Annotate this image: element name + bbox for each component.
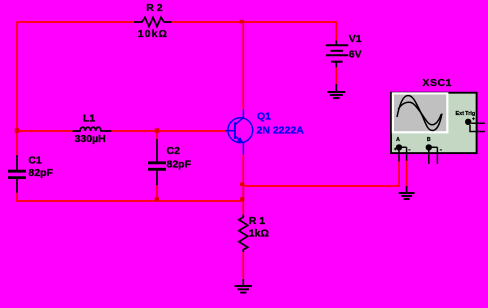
wire: top rail left segment — [17, 21, 134, 23]
terminal B pin stubs — [429, 147, 438, 164]
wire: left vertical below C1 — [16, 193, 18, 202]
svg-text:C2: C2 — [167, 145, 181, 157]
resistor R1 — [239, 215, 248, 253]
wire: C2 top stub — [156, 131, 158, 140]
svg-text:10kΩ: 10kΩ — [138, 28, 168, 40]
terminal B minus mark — [440, 149, 442, 151]
terminal B — [426, 144, 432, 150]
svg-text:C1: C1 — [28, 155, 42, 167]
ground (scope A-) — [399, 186, 415, 199]
svg-text:XSC1: XSC1 — [422, 77, 452, 89]
wire: bottom rail — [16, 200, 243, 202]
wire: R1 bottom to ground — [242, 252, 244, 279]
svg-text:330µH: 330µH — [75, 133, 106, 145]
junction: C2 bottom — [155, 197, 159, 201]
svg-text:82pF: 82pF — [28, 167, 53, 179]
svg-text:1kΩ: 1kΩ — [249, 228, 269, 240]
svg-text:R 2: R 2 — [146, 2, 163, 14]
junction: collector on top rail — [240, 20, 244, 23]
svg-text:R 1: R 1 — [249, 215, 265, 227]
wire: collector vertical — [242, 22, 244, 110]
terminal A pin stubs — [399, 147, 407, 161]
terminal A minus mark — [408, 149, 410, 151]
ground (below V1) — [327, 84, 345, 98]
junction: emitter / scope wire — [240, 183, 244, 187]
wire: output to scope A+ — [243, 162, 399, 187]
oscilloscope screen — [393, 93, 447, 132]
junction: emitter / bottom rail — [240, 197, 244, 201]
transistor Q1 (NPN) — [225, 110, 252, 155]
wire: top rail right segment to battery corner — [172, 22, 337, 41]
wire: battery to ground (red) — [335, 67, 337, 84]
svg-text:6V: 6V — [349, 49, 362, 61]
screen sine wave (inner) — [398, 102, 441, 124]
capacitor C1 — [8, 155, 26, 193]
ground (below R1) — [235, 279, 253, 293]
screen sine wave (outer) — [397, 96, 442, 131]
svg-text:82pF: 82pF — [167, 159, 192, 171]
svg-text:2N 2222A: 2N 2222A — [257, 125, 305, 137]
svg-text:V1: V1 — [349, 33, 362, 45]
wire: tank row left (node to L1) — [17, 130, 73, 132]
wire: scope A- lead (red part) — [406, 161, 408, 186]
ext trig plus mark — [472, 117, 475, 120]
terminal Ext Trig — [465, 119, 471, 125]
terminal A — [396, 144, 402, 150]
svg-text:A: A — [396, 137, 400, 143]
capacitor C2 — [148, 139, 166, 185]
svg-text:Ext Trig: Ext Trig — [456, 111, 476, 117]
battery V1 — [326, 41, 348, 68]
terminal A plus mark — [394, 148, 397, 151]
oscilloscope XSC1 body — [391, 93, 477, 153]
wire: left vertical rail — [16, 21, 18, 155]
junction: left rail / tank row — [15, 128, 20, 133]
junction: C2 top — [155, 128, 160, 133]
svg-text:L1: L1 — [83, 112, 95, 124]
svg-text:Q1: Q1 — [257, 111, 271, 123]
svg-text:B: B — [427, 137, 431, 143]
wire: C2 bottom stub — [156, 185, 158, 201]
wire: emitter vertical to R1 — [242, 154, 244, 215]
wire: tank row right (L1 to base) — [111, 130, 225, 132]
resistor R2 — [134, 17, 172, 26]
inductor L1 — [73, 127, 112, 131]
ext trig pin stubs — [470, 123, 485, 131]
